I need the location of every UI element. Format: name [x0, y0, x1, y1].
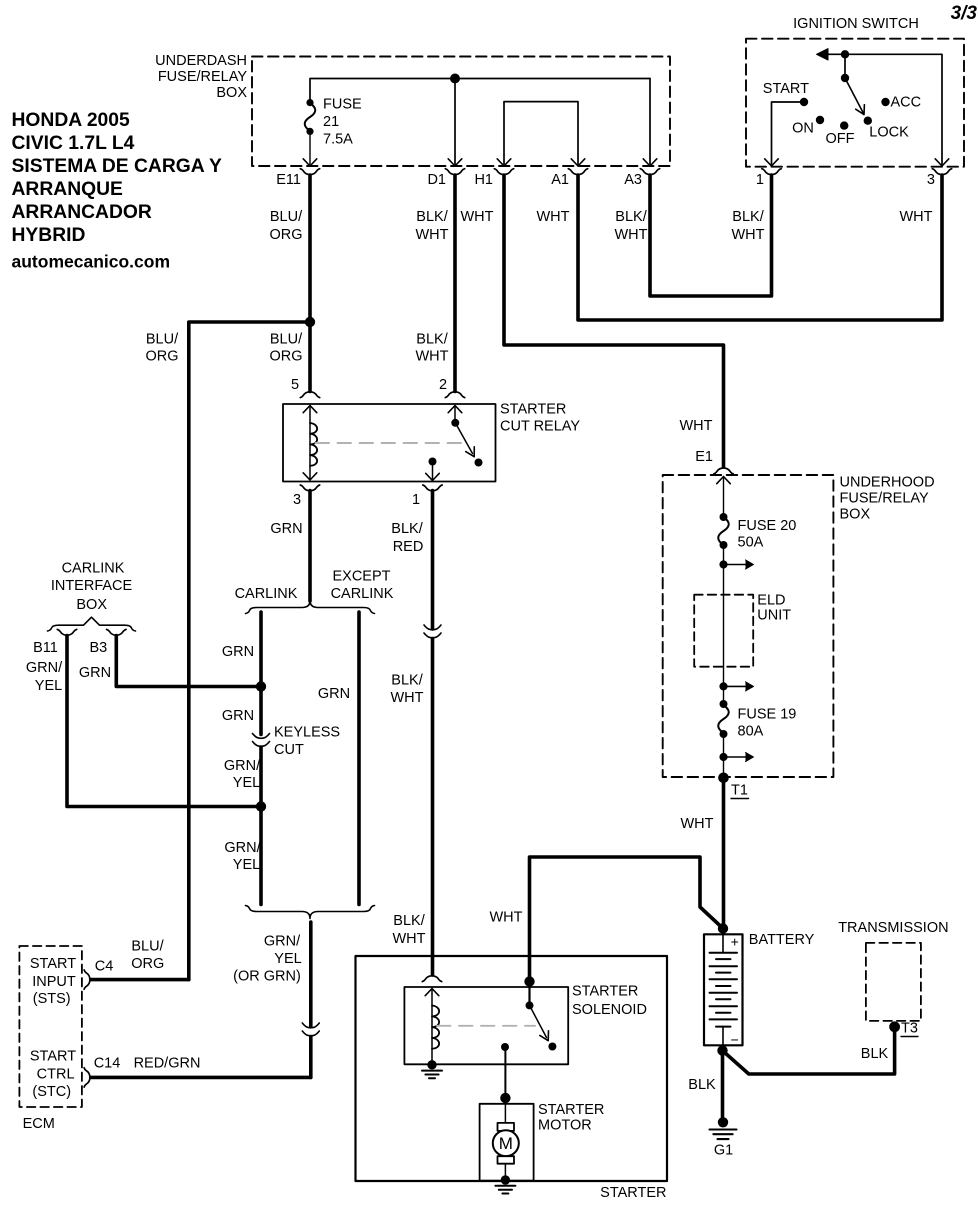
wire: merged GRN/YEL down — [309, 922, 313, 1027]
connector A3 — [624, 169, 659, 188]
svg-text:BLU/: BLU/ — [270, 209, 303, 225]
ground G1 — [710, 1117, 737, 1158]
wire: H1 to A1 loop inside box — [504, 102, 578, 164]
svg-text:WHT: WHT — [614, 227, 647, 243]
wire C4 BLU/ORG — [91, 978, 189, 982]
svg-text:CARLINK: CARLINK — [235, 586, 298, 602]
node: BLU/ORG junction — [305, 317, 315, 327]
svg-text:CARLINK: CARLINK — [62, 561, 125, 577]
svg-text:B11: B11 — [33, 640, 58, 656]
wire: relay pin3 GRN down to carlink brace — [308, 491, 312, 602]
svg-text:D1: D1 — [427, 172, 446, 188]
svg-text:ORG: ORG — [131, 956, 164, 972]
svg-text:A1: A1 — [551, 172, 569, 188]
svg-text:21: 21 — [323, 114, 339, 130]
svg-text:3: 3 — [293, 492, 301, 508]
wire H1 WHT to underhood E1 — [504, 175, 724, 467]
wire: carlink branch (left) lower — [259, 747, 263, 905]
wire D1 BLK/WHT down to relay pin 2 — [453, 175, 457, 392]
svg-text:WHT: WHT — [489, 910, 522, 926]
svg-text:WHT: WHT — [392, 931, 425, 947]
title block — [12, 110, 222, 272]
solenoid link (dashed gray) — [437, 1025, 535, 1027]
svg-text:GRN/: GRN/ — [264, 934, 301, 950]
node T1 — [718, 773, 748, 799]
wire: fuse19 to T1 — [723, 734, 725, 777]
wire: BLU/ORG branch to ECM C4 — [189, 322, 310, 980]
connector E1 — [695, 449, 733, 474]
svg-text:IGNITION SWITCH: IGNITION SWITCH — [793, 16, 919, 32]
wire: battery negative BLK to ground — [721, 1051, 725, 1117]
fuse 19 80A — [718, 700, 796, 740]
svg-text:UNIT: UNIT — [757, 608, 791, 624]
label BLK/WHT (relay pin2) — [415, 332, 448, 365]
svg-text:MOTOR: MOTOR — [538, 1118, 592, 1134]
relay coil — [303, 406, 317, 481]
wire: E1 entry into box — [717, 477, 731, 518]
relay switch arm — [448, 406, 482, 467]
svg-text:50A: 50A — [738, 535, 764, 551]
svg-text:80A: 80A — [738, 724, 764, 740]
svg-text:UNDERHOOD: UNDERHOOD — [840, 475, 935, 491]
svg-text:BLU/: BLU/ — [146, 332, 179, 348]
starter motor M1 — [493, 1104, 519, 1176]
contact ACC — [881, 95, 921, 111]
svg-text:WHT: WHT — [731, 227, 764, 243]
connector 3 (ignition) — [927, 169, 952, 188]
underdash fuse/relay box — [155, 53, 670, 166]
svg-text:BOX: BOX — [840, 507, 871, 523]
svg-text:OFF: OFF — [826, 131, 855, 147]
label BLU/ORG (E11 wire) — [269, 209, 303, 243]
label BLU/ORG (C4) — [131, 939, 164, 973]
wire: bus to D1 — [454, 79, 456, 165]
svg-text:BLK/: BLK/ — [416, 332, 448, 348]
node T3 — [889, 1021, 918, 1037]
svg-text:BOX: BOX — [216, 85, 247, 101]
svg-text:−: − — [731, 1032, 739, 1048]
wire: battery negative BLK to T3 — [723, 1027, 895, 1074]
svg-text:STARTER: STARTER — [538, 1102, 604, 1118]
relay pin 5 — [291, 377, 320, 398]
keyless cut inline connector — [253, 725, 341, 759]
svg-text:EXCEPT: EXCEPT — [332, 569, 390, 585]
label EXCEPT CARLINK — [331, 569, 394, 603]
svg-text:GRN: GRN — [79, 665, 111, 681]
contact OFF — [826, 121, 855, 147]
label BLK/WHT — [390, 673, 423, 707]
svg-text:CUT: CUT — [274, 742, 304, 758]
svg-text:START: START — [763, 81, 809, 97]
relay pin 2 — [439, 377, 465, 398]
svg-text:ELD: ELD — [757, 593, 785, 609]
ignition switch box — [746, 16, 964, 167]
svg-text:HYBRID: HYBRID — [12, 225, 86, 246]
label GRN/YEL (B11) — [26, 660, 63, 694]
wire: ignition feed with left arrow — [817, 49, 949, 166]
svg-text:G1: G1 — [714, 1142, 733, 1158]
connector B3 — [90, 629, 126, 656]
label BLU/ORG (left branch) — [145, 332, 179, 365]
svg-text:2: 2 — [439, 377, 447, 393]
svg-text:RED/GRN: RED/GRN — [134, 1056, 201, 1072]
svg-text:CIVIC 1.7L L4: CIVIC 1.7L L4 — [12, 133, 135, 154]
svg-text:BLK: BLK — [688, 1077, 716, 1093]
relay pin 1 — [412, 485, 442, 508]
svg-text:WHT: WHT — [536, 209, 569, 225]
svg-text:(OR GRN): (OR GRN) — [233, 969, 301, 985]
wire B11 GRN/YEL to lower junction — [67, 636, 261, 807]
contact START — [763, 81, 809, 166]
svg-text:YEL: YEL — [35, 678, 62, 694]
ECM box — [19, 946, 82, 1132]
node: battery positive junction — [718, 923, 728, 933]
svg-text:WHT: WHT — [460, 209, 493, 225]
wire E11 BLU/ORG down to relay pin 5 — [308, 175, 312, 392]
svg-text:WHT: WHT — [390, 690, 423, 706]
label GRN/YEL (OR GRN) — [233, 934, 302, 985]
svg-text:5: 5 — [291, 377, 299, 393]
label BLK/WHT (D1 wire) — [415, 209, 448, 243]
svg-text:B3: B3 — [90, 640, 108, 656]
wire: except-carlink branch (right) — [357, 612, 361, 905]
label BLK/WHT (A3 wire) — [614, 209, 647, 243]
label GRN/YEL (above B11 junction) — [224, 758, 261, 791]
label BLK/WHT (ignition 1 wire) — [731, 209, 764, 243]
svg-text:automecanico.com: automecanico.com — [12, 252, 171, 272]
wire: carlink branch (left) upper — [259, 612, 263, 735]
svg-text:INPUT: INPUT — [32, 974, 76, 990]
fuse 21 7.5A — [305, 97, 362, 148]
solenoid switch arm — [526, 1001, 557, 1050]
wire C14 RED/GRN — [91, 1076, 311, 1080]
svg-text:BLU/: BLU/ — [270, 332, 303, 348]
svg-text:E11: E11 — [276, 172, 301, 188]
connector E11 — [276, 169, 319, 188]
tap arrow 3 — [719, 752, 753, 761]
svg-text:WHT: WHT — [899, 209, 932, 225]
svg-text:START: START — [30, 1049, 76, 1065]
svg-text:BLU/: BLU/ — [131, 939, 164, 955]
svg-text:FUSE 19: FUSE 19 — [738, 707, 797, 723]
svg-text:FUSE 20: FUSE 20 — [738, 518, 797, 534]
wire: GRN/YEL to C14 corner — [309, 1037, 313, 1078]
connector A1 — [551, 169, 587, 188]
svg-text:M: M — [499, 1134, 513, 1153]
svg-text:1: 1 — [756, 172, 764, 188]
svg-text:UNDERDASH: UNDERDASH — [155, 53, 247, 69]
svg-text:3: 3 — [927, 172, 935, 188]
ground: starter motor — [495, 1175, 515, 1193]
relay pin 3 — [293, 485, 320, 508]
node: GRN junction (B3 join) — [256, 681, 266, 691]
svg-text:BLK/: BLK/ — [416, 209, 448, 225]
svg-text:ORG: ORG — [269, 349, 302, 365]
node: motor junction — [500, 1093, 510, 1103]
svg-text:BLK/: BLK/ — [732, 209, 764, 225]
svg-text:SOLENOID: SOLENOID — [572, 1002, 647, 1018]
underhood fuse/relay box — [663, 475, 935, 778]
label GRN/YEL (below junction) — [224, 840, 261, 873]
svg-text:3/3: 3/3 — [951, 3, 978, 24]
node: rotor pivot junctions — [841, 50, 849, 82]
tap arrow 2 — [719, 682, 753, 691]
svg-text:T1: T1 — [731, 783, 748, 799]
contact LOCK — [864, 117, 909, 141]
svg-text:KEYLESS: KEYLESS — [274, 725, 340, 741]
svg-text:BLK/: BLK/ — [391, 521, 423, 537]
wire: BLK/WHT down to starter solenoid — [431, 639, 435, 976]
connector 1 (ignition) — [756, 169, 781, 188]
svg-text:STARTER: STARTER — [600, 1185, 666, 1201]
connector D1 — [427, 169, 464, 188]
svg-text:T3: T3 — [901, 1021, 918, 1037]
switch rotor arm toward LOCK — [845, 78, 868, 117]
svg-text:LOCK: LOCK — [869, 124, 909, 140]
svg-text:GRN: GRN — [222, 708, 254, 724]
contact ON — [792, 116, 824, 137]
wire B3 GRN to carlink junction — [116, 636, 261, 687]
svg-text:C14: C14 — [94, 1056, 121, 1072]
svg-text:WHT: WHT — [415, 349, 448, 365]
svg-text:BATTERY: BATTERY — [749, 932, 815, 948]
svg-text:GRN: GRN — [270, 521, 302, 537]
svg-text:YEL: YEL — [233, 857, 260, 873]
svg-text:GRN/: GRN/ — [224, 758, 261, 774]
svg-text:(STC): (STC) — [32, 1084, 71, 1100]
wire: T1 WHT to battery + — [722, 777, 726, 928]
svg-text:WHT: WHT — [415, 227, 448, 243]
node: battery negative junction — [717, 1045, 727, 1055]
svg-text:SISTEMA DE CARGA Y: SISTEMA DE CARGA Y — [12, 156, 222, 177]
connector B11 — [33, 629, 77, 656]
starter motor box — [480, 1102, 605, 1181]
starter box — [356, 956, 668, 1201]
svg-text:CARLINK: CARLINK — [331, 586, 394, 602]
svg-text:C4: C4 — [95, 959, 114, 975]
svg-text:GRN: GRN — [318, 686, 350, 702]
svg-text:CTRL: CTRL — [37, 1067, 75, 1083]
connector: solenoid coil input — [422, 976, 441, 982]
relay link (dashed gray) — [316, 442, 462, 444]
svg-text:RED: RED — [393, 539, 424, 555]
carlink interface box — [48, 561, 136, 632]
battery — [704, 932, 815, 1048]
starter solenoid box — [404, 984, 647, 1065]
svg-text:(STS): (STS) — [33, 991, 71, 1007]
solenoid coil — [425, 989, 439, 1064]
svg-text:ARRANQUE: ARRANQUE — [12, 179, 124, 200]
svg-text:CUT RELAY: CUT RELAY — [500, 419, 580, 435]
wire: through ELD unit — [723, 595, 725, 704]
svg-text:INTERFACE: INTERFACE — [51, 578, 133, 594]
svg-text:STARTER: STARTER — [500, 402, 566, 418]
svg-text:WHT: WHT — [679, 418, 712, 434]
brace: carlink merge (bottom) — [246, 906, 375, 919]
svg-text:STARTER: STARTER — [572, 984, 638, 1000]
svg-text:WHT: WHT — [680, 816, 713, 832]
svg-text:GRN/: GRN/ — [224, 840, 261, 856]
svg-text:HONDA 2005: HONDA 2005 — [12, 110, 131, 131]
fuse 20 50A — [718, 513, 796, 551]
svg-text:START: START — [30, 956, 76, 972]
svg-text:+: + — [731, 933, 739, 949]
wire: bus to A3 — [649, 79, 651, 165]
inline connector on GRN/YEL wire — [302, 1023, 319, 1036]
connector C14 — [84, 1056, 120, 1087]
label BLK/WHT (lower) — [392, 913, 425, 947]
wire A3 BLK/WHT to ignition 1 — [650, 175, 772, 296]
svg-text:FUSE/RELAY: FUSE/RELAY — [840, 491, 930, 507]
inline connector on BLK wire — [424, 625, 441, 638]
relay pin1 contact — [426, 458, 440, 481]
node: solenoid feed junction — [524, 976, 534, 986]
ELD unit box — [694, 593, 791, 667]
svg-text:GRN: GRN — [222, 644, 254, 660]
svg-text:YEL: YEL — [274, 951, 301, 967]
svg-text:BLK/: BLK/ — [391, 673, 423, 689]
starter cut relay box U4 — [283, 402, 580, 482]
svg-text:BLK: BLK — [861, 1046, 889, 1062]
wire: fuse 21 to E11 — [309, 133, 311, 164]
wire A1 WHT to ignition 3 — [578, 175, 942, 320]
wire: relay pin1 BLK/RED down — [431, 491, 435, 630]
connector C4 — [84, 959, 113, 990]
svg-text:7.5A: 7.5A — [323, 132, 353, 148]
svg-text:A3: A3 — [624, 172, 642, 188]
svg-text:GRN/: GRN/ — [26, 660, 63, 676]
tap arrow 1 — [719, 560, 753, 569]
connector H1 — [474, 169, 513, 188]
svg-text:ACC: ACC — [891, 95, 922, 111]
svg-text:YEL: YEL — [233, 775, 260, 791]
wire: feed into solenoid switch — [528, 982, 530, 1004]
ground: solenoid coil — [422, 1060, 442, 1078]
svg-text:1: 1 — [412, 492, 420, 508]
solenoid output contact — [501, 1043, 509, 1096]
wire: solenoid feed WHT (battery + to starter) — [530, 857, 723, 982]
svg-text:ORG: ORG — [269, 227, 302, 243]
svg-text:ECM: ECM — [23, 1116, 55, 1132]
svg-text:BLK/: BLK/ — [615, 209, 647, 225]
label BLU/ORG (relay pin5) — [269, 332, 303, 365]
wire: fuse20 to tap — [723, 545, 725, 595]
svg-text:ORG: ORG — [145, 349, 178, 365]
svg-text:BLK/: BLK/ — [393, 913, 425, 929]
node: bus junction above D1 — [450, 74, 460, 84]
svg-text:E1: E1 — [695, 449, 713, 465]
svg-text:BOX: BOX — [76, 597, 107, 613]
transmission box — [838, 920, 948, 1021]
svg-text:FUSE: FUSE — [323, 97, 362, 113]
node: GRN/YEL junction (B11 join) — [256, 801, 266, 811]
svg-text:ARRANCADOR: ARRANCADOR — [12, 202, 152, 223]
svg-text:H1: H1 — [474, 172, 493, 188]
svg-text:ON: ON — [792, 120, 814, 136]
svg-text:FUSE/RELAY: FUSE/RELAY — [158, 69, 248, 85]
wire: feed bus inside underdash box — [310, 79, 650, 103]
brace: carlink split (top) — [246, 601, 375, 614]
svg-text:TRANSMISSION: TRANSMISSION — [838, 920, 948, 936]
label BLK/RED — [391, 521, 423, 555]
